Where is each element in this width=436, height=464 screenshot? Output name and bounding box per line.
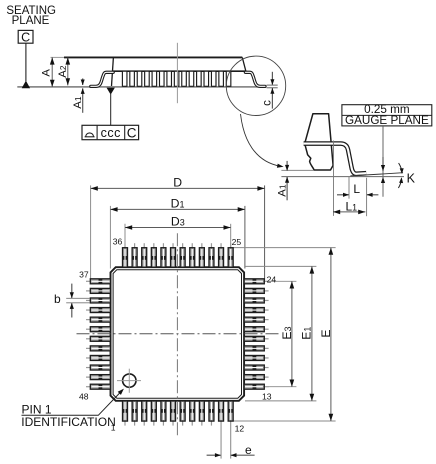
pin 14 right [244, 375, 269, 380]
pin 12 bottom [228, 401, 233, 459]
pin 38 left [86, 288, 111, 293]
svg-text:D3: D3 [171, 215, 185, 229]
pin 4 bottom [151, 401, 156, 426]
pin 3 bottom [142, 401, 147, 426]
dimension E1 [311, 266, 313, 401]
side view lead comb [122, 71, 230, 86]
svg-text:GAUGE PLANE: GAUGE PLANE [345, 114, 429, 127]
dimension A [51, 57, 53, 87]
pin 10 bottom [209, 401, 214, 426]
pin 15 right [244, 365, 269, 370]
dimension c extension ticks [267, 84, 278, 86]
package body outline [111, 267, 245, 401]
side view vertical centerline [176, 43, 178, 103]
svg-text:24: 24 [267, 275, 277, 285]
pin 16 right [244, 355, 269, 360]
pin 6 bottom [171, 401, 176, 426]
feature control frame ccc [82, 125, 139, 139]
datum C leader line [25, 43, 27, 81]
svg-text:ccc: ccc [101, 126, 121, 140]
horizontal centerline [77, 333, 279, 335]
pin 8 bottom [190, 401, 195, 426]
pin 2 bottom [132, 401, 137, 426]
pin 48 left [86, 384, 111, 389]
pin 37 left [86, 279, 111, 284]
pin 22 right [244, 298, 269, 303]
ccc frame leader line [110, 94, 112, 125]
pin 27 top [209, 243, 214, 267]
svg-text:25: 25 [232, 237, 242, 247]
svg-text:48: 48 [79, 392, 89, 402]
pin 11 bottom [219, 401, 224, 459]
svg-text:D1: D1 [171, 196, 185, 210]
pin 5 bottom [161, 401, 166, 426]
datum C triangle [22, 81, 30, 89]
pin 33 top [151, 243, 156, 267]
detail lead body section [305, 114, 333, 170]
dimension L1 extension line [333, 141, 335, 216]
side view package top line [64, 56, 242, 58]
dimension A2 [67, 57, 69, 85]
pin 32 top [161, 243, 166, 267]
svg-text:37: 37 [79, 270, 89, 280]
pin 18 right [244, 336, 269, 341]
svg-text:E1: E1 [300, 327, 314, 340]
pin 1 bottom [123, 401, 128, 426]
pin 21 right [244, 308, 269, 313]
pin 46 left [86, 365, 111, 370]
svg-text:E: E [319, 329, 333, 337]
dimension b [71, 284, 73, 298]
svg-text:b: b [54, 292, 61, 306]
svg-text:C: C [127, 125, 137, 140]
pin 36 top [123, 243, 128, 267]
svg-text:L: L [353, 182, 360, 196]
dimension D3 [125, 227, 231, 229]
pin 13 right [244, 384, 269, 389]
pin 45 left [86, 355, 111, 360]
pin 47 left [86, 375, 111, 380]
detail lead shank and foot [304, 144, 367, 174]
svg-text:c: c [261, 100, 273, 106]
dimension K angle arrows [399, 163, 402, 173]
svg-text:13: 13 [262, 391, 272, 401]
svg-text:A: A [41, 69, 53, 77]
seating plane line [17, 86, 266, 88]
pin 9 bottom [199, 401, 204, 426]
svg-text:A1: A1 [72, 96, 84, 109]
detail leader curved arrow [241, 114, 281, 166]
pin 30 top [180, 243, 185, 267]
detail seating plane line [281, 176, 404, 178]
svg-text:36: 36 [113, 237, 123, 247]
pin 19 right [244, 327, 269, 332]
pin 29 top [190, 243, 195, 267]
svg-text:D: D [173, 176, 182, 190]
side view left gull-wing lead [91, 72, 113, 86]
dimension c [271, 72, 273, 85]
svg-text:E3: E3 [280, 326, 294, 339]
detail body bottom line [281, 169, 313, 171]
gauge plane arrows [382, 157, 384, 171]
dimension D1 extension lines [109, 206, 111, 269]
datum C box [18, 30, 33, 43]
side view body bottom edge [112, 70, 246, 72]
side view right gull-wing lead [245, 72, 265, 86]
pin 23 right [244, 288, 269, 293]
dimension L extension lines [348, 177, 350, 199]
pin 31 top [171, 243, 176, 267]
dimension A1 side view [82, 78, 84, 85]
svg-text:A1: A1 [277, 184, 289, 197]
pin 25 top [228, 243, 233, 267]
gauge plane vertical reference line [382, 126, 384, 197]
pin 42 left [86, 327, 111, 332]
package body inner outline [113, 270, 241, 398]
svg-text:1: 1 [111, 422, 116, 432]
pin 24 right [244, 279, 269, 284]
ccc frame leader triangle [107, 88, 115, 95]
dimension E3 [291, 281, 293, 386]
side view body right slant edge [242, 57, 246, 71]
pin 7 bottom [180, 401, 185, 426]
dimension L1 [333, 211, 365, 213]
dimension L [337, 194, 349, 196]
vertical centerline [176, 233, 178, 435]
pin 40 left [86, 308, 111, 313]
svg-text:L1: L1 [345, 199, 357, 213]
dimension D [91, 187, 265, 189]
side view seating plane extension line [51, 56, 65, 58]
svg-text:e: e [245, 443, 252, 457]
svg-text:A2: A2 [57, 65, 69, 78]
svg-text:K: K [407, 171, 416, 185]
svg-text:PLANE: PLANE [12, 15, 50, 27]
K angle line [350, 173, 403, 176]
svg-text:12: 12 [235, 424, 245, 434]
dimension b extension ticks [66, 297, 90, 299]
pin 35 top [132, 243, 137, 267]
pin 1 leader line [22, 391, 122, 415]
svg-text:IDENTIFICATION: IDENTIFICATION [21, 415, 115, 429]
pin 43 left [86, 336, 111, 341]
pin 41 left [86, 317, 111, 322]
dimension e extension lines [220, 426, 222, 459]
dimension D1 [110, 208, 245, 210]
pin 28 top [199, 243, 204, 267]
svg-text:C: C [21, 30, 30, 44]
pin 17 right [244, 346, 269, 351]
gauge plane box [342, 105, 432, 126]
detail circle [226, 56, 285, 115]
dimension E [330, 248, 332, 421]
dimension A1 detail [286, 161, 288, 171]
dimension D3 extension lines [124, 224, 126, 248]
pin 39 left [86, 298, 111, 303]
side view body left slant edge [111, 57, 113, 87]
dimension D extension lines [90, 185, 92, 280]
pin 44 left [86, 346, 111, 351]
dimension e [207, 454, 221, 456]
extension lines right side E dims [234, 247, 336, 249]
profile of surface symbol [85, 136, 95, 138]
pin 26 top [219, 243, 224, 267]
pin 34 top [142, 243, 147, 267]
pin 20 right [244, 317, 269, 322]
pin 1 identification circle [123, 374, 136, 387]
